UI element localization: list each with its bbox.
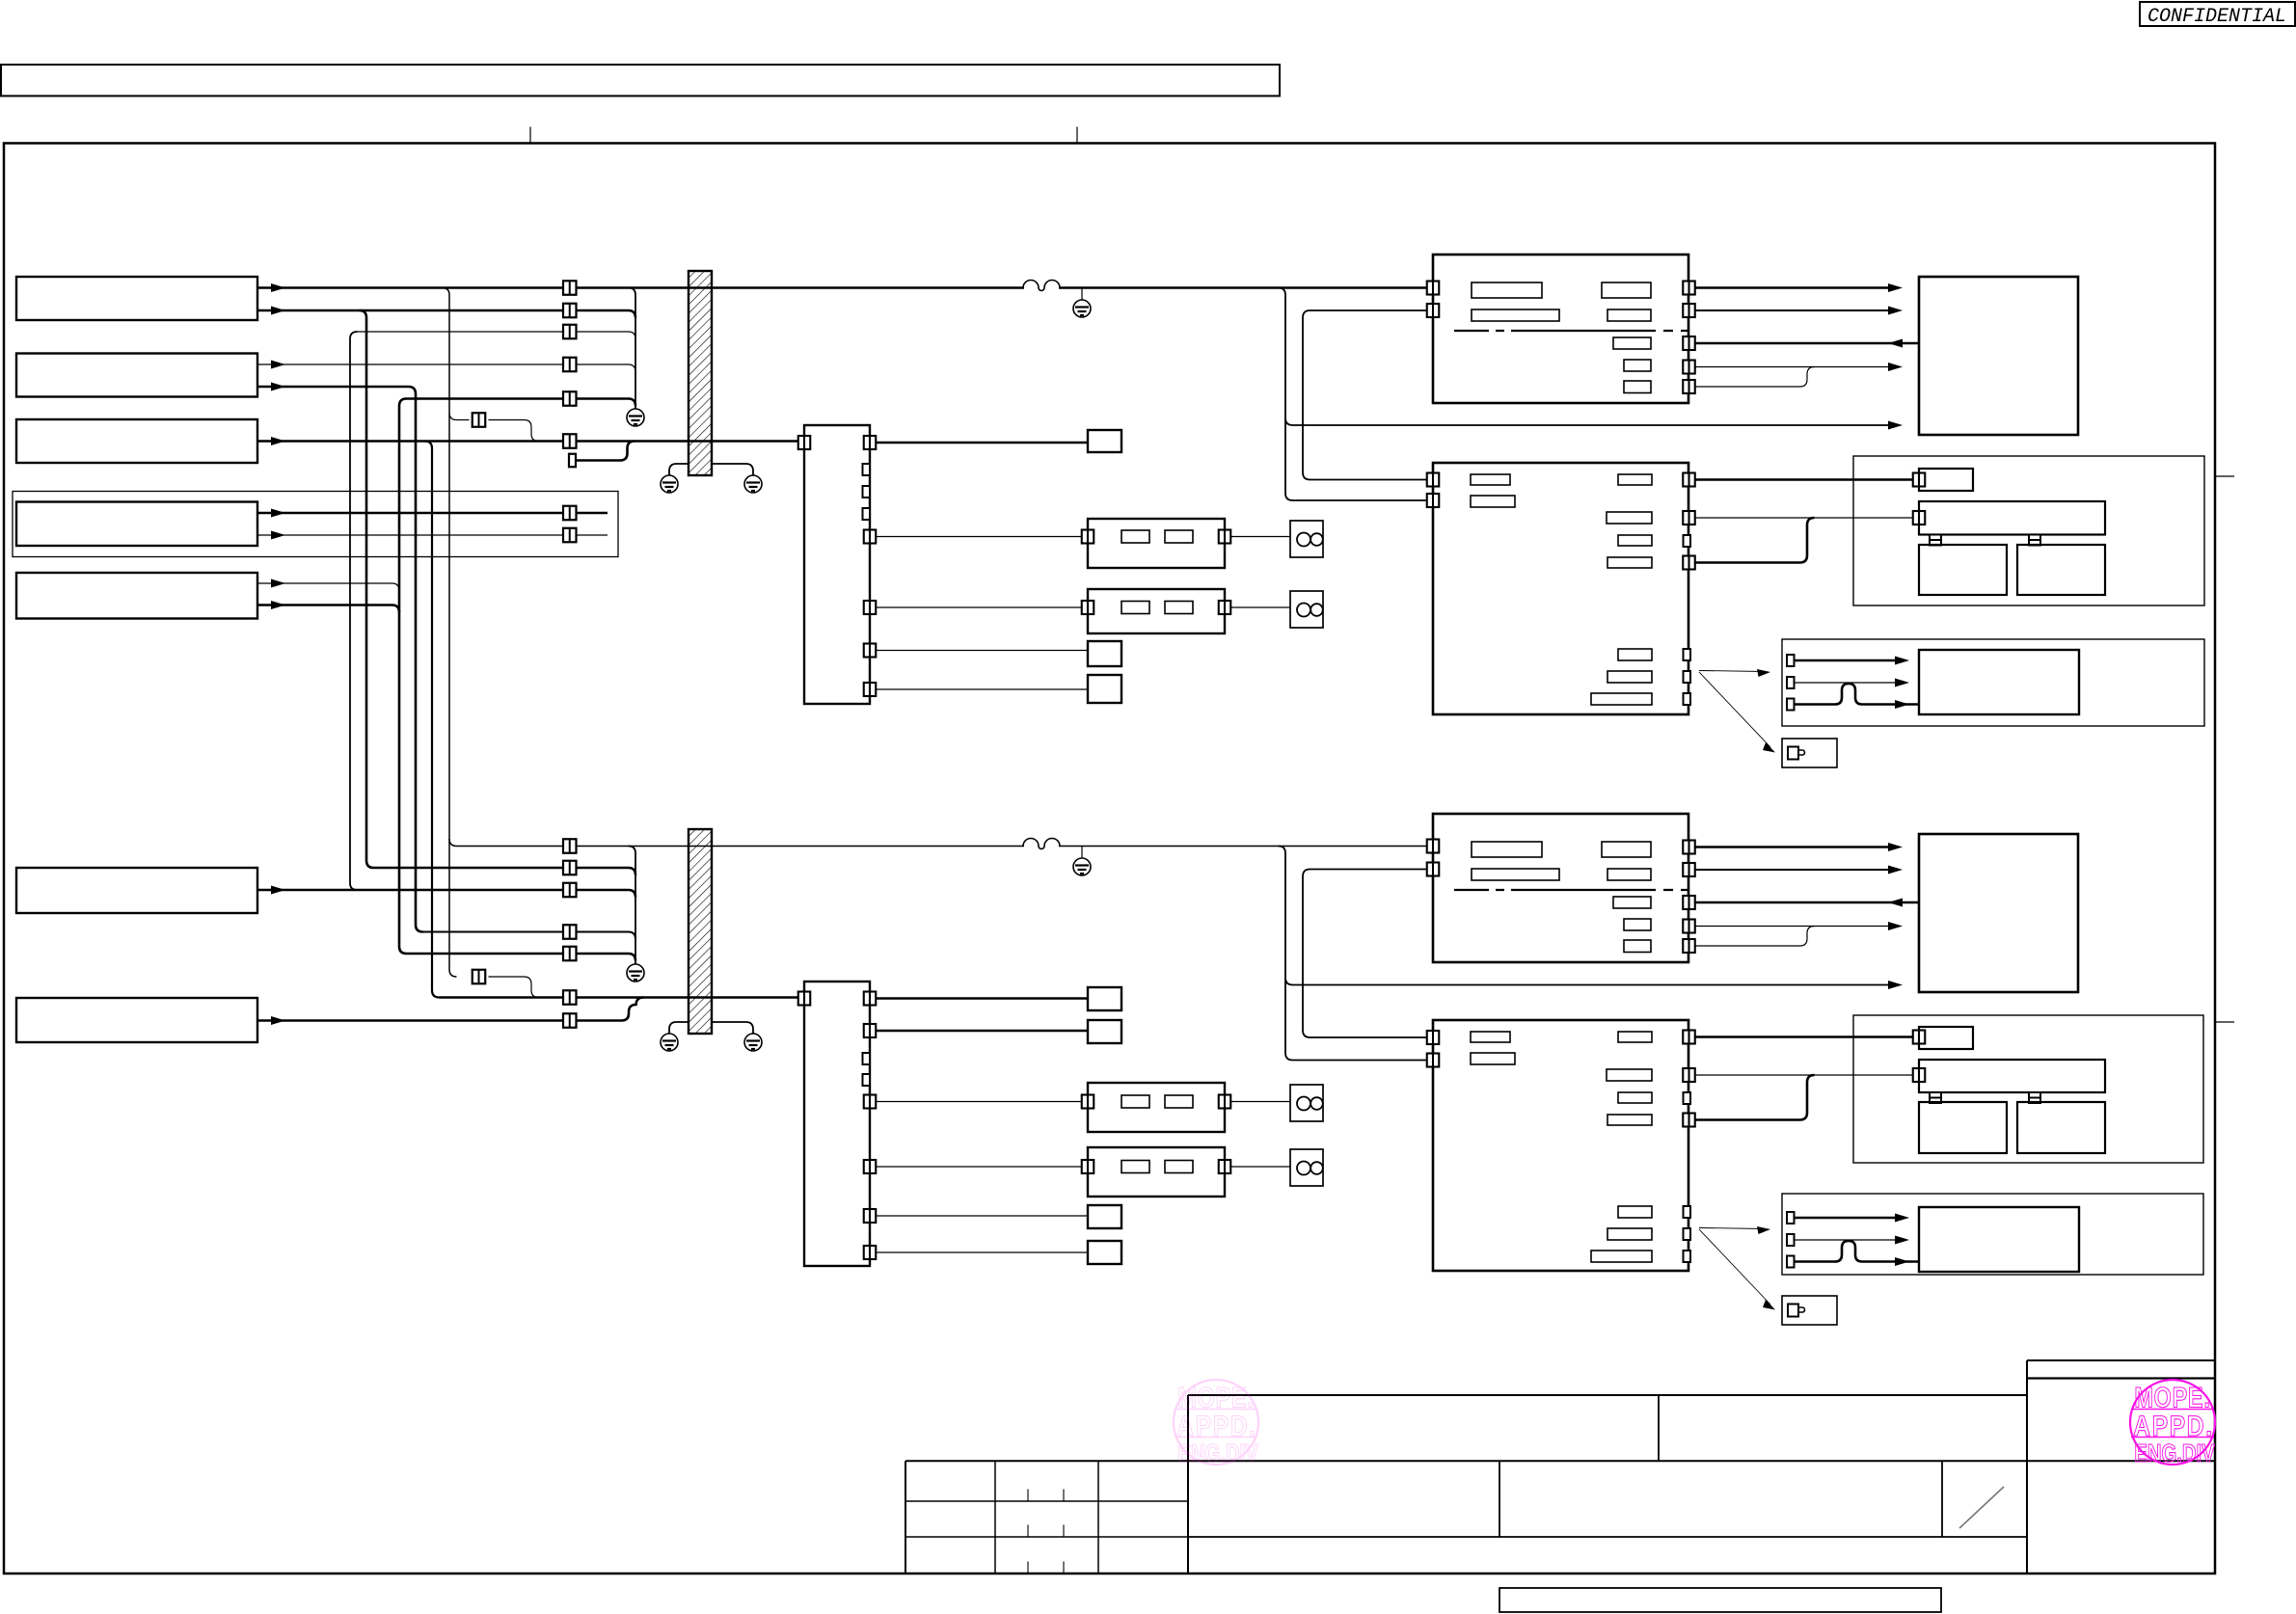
title lower cell divider 1 xyxy=(1499,1461,1500,1537)
wire L3b (box6 out) y=923 xyxy=(257,890,635,898)
panel assembly outer box E xyxy=(1853,456,2204,605)
A inner rect 6 xyxy=(1624,360,1651,371)
svg-text:APPD.: APPD. xyxy=(1176,1410,1256,1442)
terminator box T3 xyxy=(1088,675,1121,703)
input box 3 xyxy=(16,419,257,463)
strip right pin p3 xyxy=(864,601,877,614)
F stub pin 1 xyxy=(1787,655,1795,666)
jack unit box G2 xyxy=(1782,1296,1837,1325)
callout arrow to jack unit xyxy=(1699,672,1770,747)
wire filter1 to ferrite unit xyxy=(1230,536,1290,538)
vertical bus v363 xyxy=(350,332,358,890)
wire L2b y=900 xyxy=(374,868,636,875)
wire L4 (box2 out A thin) y=378 xyxy=(257,364,635,372)
E2b pin xyxy=(1913,1068,1926,1082)
input box 4 xyxy=(16,502,257,547)
main unit box B xyxy=(1433,463,1688,714)
revision table left edge xyxy=(905,1461,906,1574)
wire q4 to filter2b xyxy=(876,1166,1082,1168)
B right stub pins (audio) xyxy=(1684,649,1691,660)
wire A2 row3 (return) xyxy=(1695,901,1919,904)
F stub pin 2 xyxy=(1787,677,1795,688)
F wire 1 xyxy=(1795,659,1896,662)
A right pin 4 xyxy=(1683,361,1695,374)
wire B row2 to panel xyxy=(1695,517,1913,519)
key box E4b xyxy=(2017,1102,2105,1153)
B2 inner rect 4 xyxy=(1607,1069,1652,1081)
B inner rect 7 xyxy=(1618,649,1652,660)
wire L4b y=966.5 xyxy=(423,932,636,940)
ferrite bead humps on L1 xyxy=(1023,281,1060,291)
B right stub pin xyxy=(1684,535,1691,547)
B2 inner rect 5 xyxy=(1618,1092,1652,1103)
B inner rect 3 xyxy=(1618,474,1652,485)
B inner rect 2 xyxy=(1471,496,1515,507)
A inner rect 2 xyxy=(1472,309,1559,321)
svg-text:ENG.DIV: ENG.DIV xyxy=(2134,1439,2215,1467)
strip2 right pin q4 xyxy=(864,1160,877,1173)
vertical bus v431 xyxy=(416,394,423,932)
speaker box F2 xyxy=(1919,650,2079,714)
A2 inner rect 3 xyxy=(1602,842,1651,857)
A right pin 1 xyxy=(1683,282,1695,295)
key box E4 xyxy=(2017,545,2105,595)
wire B row1 to LCD xyxy=(1695,478,1913,481)
main unit box B2 xyxy=(1433,1020,1688,1271)
jack unit box G xyxy=(1782,739,1837,767)
wire L6 (y=413.5 to ground bus) xyxy=(407,399,636,407)
E2-E3 link pin xyxy=(1930,535,1941,546)
ferrite unit (oo) 2b xyxy=(1290,1149,1323,1186)
E2 pin xyxy=(1913,511,1926,525)
wire box5 out B y=627.5 (to v414) xyxy=(257,604,392,606)
wire A row1 to display unit xyxy=(1695,286,1888,289)
A inner rect 3 xyxy=(1602,282,1651,298)
A inner rect 1 xyxy=(1472,282,1542,298)
stamp column top xyxy=(2027,1359,2215,1361)
ground at bus bottom xyxy=(627,409,644,426)
wire from A2 pin2 down to B2 pin1 (v1351b) xyxy=(1303,870,1427,1038)
A left pin 2 xyxy=(1427,304,1440,317)
strip2 left pin xyxy=(798,992,811,1006)
E1b pin xyxy=(1913,1031,1926,1044)
revision date ticks xyxy=(1027,1490,1029,1502)
Fb wire 2 xyxy=(1795,1239,1896,1241)
B2 inner rect 2 xyxy=(1471,1053,1515,1064)
input box 1 xyxy=(16,277,257,320)
wire A2 row4 xyxy=(1695,926,1888,928)
ferrite unit (oo) 1 xyxy=(1290,521,1323,557)
vertical bus v380 xyxy=(366,318,374,869)
wire A row5 merging into row4 xyxy=(1695,367,1815,388)
ferrite bead humps on L1b xyxy=(1023,839,1060,849)
drawing number box below border xyxy=(1499,1588,1941,1612)
title block mid horizontal xyxy=(905,1460,2215,1462)
ground stem on L1b xyxy=(1081,847,1083,859)
wire p2 to filter1 xyxy=(876,536,1082,538)
A2 section divider (dash-dot) xyxy=(1454,889,1688,891)
jack symbol xyxy=(1788,747,1798,760)
wire q6 to T3b xyxy=(876,1251,1088,1253)
ferrite unit (oo) 1b xyxy=(1290,1085,1323,1121)
callout arrow to speaker unit xyxy=(1699,671,1765,672)
input box 7 (lower system) xyxy=(16,998,257,1042)
B right pin 1 xyxy=(1683,473,1695,487)
input box 6 (lower system) xyxy=(16,868,257,913)
svg-text:APPD.: APPD. xyxy=(2133,1410,2213,1442)
A2 inner rect 6 xyxy=(1624,919,1651,930)
terminator box T3b xyxy=(1088,1241,1121,1264)
B2 inner rect 1 xyxy=(1471,1032,1510,1042)
input box 2 xyxy=(16,354,257,397)
wire box5 out A y=605 (to v414) xyxy=(257,582,392,584)
svg-text:ENG.DIV: ENG.DIV xyxy=(1177,1439,1258,1467)
B2 left pin 2 xyxy=(1427,1054,1440,1067)
strip2 stub pins xyxy=(863,1053,871,1064)
box7 out wire y=1058.5 joining main xyxy=(257,998,643,1021)
wire q2 to Txb xyxy=(876,1030,1088,1033)
wall ground link left xyxy=(669,464,689,475)
wire p3 to filter2 xyxy=(876,606,1082,608)
filter box FL2b xyxy=(1088,1147,1225,1197)
CONFIDENTIAL stamp box xyxy=(2140,2,2295,26)
B2 right pin 2 xyxy=(1683,1068,1695,1082)
filter box FL1b xyxy=(1088,1083,1225,1132)
zone tick right border 1 xyxy=(2215,475,2234,477)
panel pcb box E2b xyxy=(1919,1060,2105,1092)
input box 5 xyxy=(16,573,257,619)
B2 inner rect 8 xyxy=(1607,1228,1652,1240)
strip left pin xyxy=(798,436,811,449)
connector strip J (top half) xyxy=(804,425,870,704)
ground left of wall (bottom) xyxy=(661,1034,678,1051)
B2 right stub pin xyxy=(1684,1092,1691,1104)
ground (L1b shield) xyxy=(1073,858,1091,875)
wall ground link right (bottom) xyxy=(712,1022,753,1034)
B left pin 2 xyxy=(1427,494,1440,507)
title block top edge xyxy=(1188,1394,2027,1396)
speaker box F2b xyxy=(1919,1207,2079,1272)
E1 pin xyxy=(1913,473,1926,487)
filter box FL1 xyxy=(1088,519,1225,568)
wire L3 (thin, from v363) y=344 xyxy=(358,332,636,339)
wire q1 to T1b xyxy=(876,997,1088,1000)
wire A row3 (return) xyxy=(1695,342,1919,345)
A2 right pin 3 xyxy=(1683,896,1695,909)
stamp column left edge xyxy=(2026,1360,2028,1574)
terminator box T2b xyxy=(1088,1205,1121,1228)
display unit box D xyxy=(1919,277,2078,435)
wire A2 row1 xyxy=(1695,846,1888,848)
B left pin 1 xyxy=(1427,473,1440,487)
E2b-E3b link pin xyxy=(1930,1092,1941,1103)
A inner rect 5 xyxy=(1613,337,1651,349)
A2 inner rect 1 xyxy=(1472,842,1542,857)
wire p5 to T3 xyxy=(876,688,1088,690)
main wire bottom y=1034.5 xyxy=(440,996,799,999)
wire L5 (box2 out B) y=401 turns down at x=431 xyxy=(257,387,416,394)
wire q3 to filter1b xyxy=(876,1101,1082,1103)
wire filter2b to ferrite unit xyxy=(1230,1166,1290,1168)
A2 right pin 5 xyxy=(1683,939,1695,953)
main wire (box3 out) y=457.5 xyxy=(257,440,798,443)
branch of v1333b to display unit y=1021.5 xyxy=(1285,978,1888,985)
B2 inner rect 9 xyxy=(1591,1251,1652,1262)
wire A row2 xyxy=(1695,309,1888,311)
E2-E4 link pin xyxy=(2029,535,2040,546)
wire A2 row5 merging into row4 xyxy=(1695,927,1815,947)
strip right pin p4 xyxy=(864,644,877,658)
connector column (bottom half) xyxy=(563,839,577,853)
B2 right pin 4 xyxy=(1683,1114,1695,1127)
jumper tap wire bottom with connector xyxy=(489,977,539,998)
title block left edge xyxy=(1187,1395,1189,1574)
panel pcb box E2 xyxy=(1919,501,2105,535)
strip right pin p5 xyxy=(864,683,877,696)
wire L2 (box1 out B) y=322 xyxy=(257,310,635,318)
faint duplicate stamp xyxy=(1174,1380,1258,1467)
wall ground link left (bottom) xyxy=(669,1022,689,1034)
wire B row4 merging into row2 xyxy=(1695,518,1815,563)
speaker unit outer box F (bottom) xyxy=(1782,1194,2203,1275)
ground (L1 shield) xyxy=(1073,300,1091,317)
B inner rect 5 xyxy=(1618,535,1652,546)
scale slash xyxy=(1959,1487,2004,1528)
F stub pin 3 xyxy=(1787,699,1795,711)
ground stem on L1 xyxy=(1081,288,1083,301)
A2 right pin 4 xyxy=(1683,920,1695,933)
jumper connector xyxy=(473,413,486,427)
revision table column 2 xyxy=(994,1461,996,1574)
wire L5b y=989 xyxy=(407,954,636,961)
B2 inner rect 3 xyxy=(1618,1032,1652,1042)
group enclosure around box 4 xyxy=(13,492,618,557)
title strip (empty) top-left xyxy=(1,65,1280,96)
strip2 right pin q3 xyxy=(864,1095,877,1109)
EMI wall (hatched bar, top) xyxy=(689,271,712,475)
branch of L1 down to feeds (v1333) xyxy=(1279,288,1428,501)
title name cell divider xyxy=(1658,1395,1660,1461)
wire q5 to T2b xyxy=(876,1215,1088,1217)
B right pin 2 xyxy=(1683,511,1695,525)
LCD box E1 xyxy=(1919,469,1973,491)
B inner rect 6 xyxy=(1607,557,1652,568)
zone tick top border 2 xyxy=(1076,127,1078,144)
jack symbol (bottom) xyxy=(1788,1305,1798,1317)
A inner rect 7 xyxy=(1624,381,1651,393)
power unit box A2 xyxy=(1433,814,1688,962)
wire filter2 to ferrite unit xyxy=(1230,606,1290,608)
A2 right pin 2 xyxy=(1683,863,1695,876)
jumper tap wire with connector (from v466) xyxy=(449,413,470,420)
A2 left pin 2 xyxy=(1427,863,1440,876)
A2 inner rect 4 xyxy=(1607,869,1651,880)
power unit box A xyxy=(1433,255,1688,403)
panel assembly outer box E (bottom) xyxy=(1853,1015,2203,1163)
wire p4 to T2 xyxy=(876,650,1088,652)
branch of L1b down to feeds (v1333b) xyxy=(1279,847,1428,1061)
strip2 right pin q5 xyxy=(864,1209,877,1223)
speaker unit outer box F xyxy=(1782,639,2204,726)
wire A2 row2 xyxy=(1695,869,1888,871)
callout arrow to jack unit (bottom) xyxy=(1699,1229,1770,1305)
revision table row 2 xyxy=(905,1536,1188,1538)
ground bus vertical x=659 (bottom) xyxy=(629,847,636,965)
vertical bus v448 xyxy=(425,442,440,998)
LCD box E1b xyxy=(1919,1027,1973,1049)
stamp cell top xyxy=(2027,1377,2215,1379)
Fb wire 1 xyxy=(1795,1217,1896,1220)
wall ground link right xyxy=(712,464,753,475)
stub connector below main xyxy=(569,454,576,468)
A2 inner rect 7 xyxy=(1624,940,1651,953)
A2 right pin 1 xyxy=(1683,841,1695,854)
wire L1b y=877.5 xyxy=(457,846,1025,847)
ground right of wall (bottom) xyxy=(744,1034,762,1051)
revision table row 1 xyxy=(905,1500,1188,1502)
B inner rect 4 xyxy=(1607,512,1652,524)
wire from A pin2 down to B pin1 (v1351) xyxy=(1303,310,1427,480)
ground at bottom bus xyxy=(627,964,644,982)
wire filter1b to ferrite unit xyxy=(1230,1101,1290,1103)
strip2 right pin q6 xyxy=(864,1246,877,1259)
A section divider (dash-dot) xyxy=(1454,330,1688,332)
stub wire joining main line xyxy=(576,442,635,461)
Fb stub pin 3 xyxy=(1787,1256,1795,1268)
B right pin 4 xyxy=(1683,556,1695,570)
A2 inner rect 2 xyxy=(1472,869,1559,880)
wire B2 row4 merging into row2 xyxy=(1695,1075,1815,1120)
A left pin 1 xyxy=(1427,282,1440,295)
A right pin 3 xyxy=(1683,336,1695,350)
zone tick top border 1 xyxy=(529,127,531,144)
wire B2 row1 to LCD xyxy=(1695,1036,1913,1038)
F wire 2 xyxy=(1795,682,1896,684)
terminator box T1 xyxy=(1088,430,1121,452)
key box E3b xyxy=(1919,1102,2007,1153)
wire B2 row2 to panel xyxy=(1695,1074,1913,1076)
F wire 3 with hop xyxy=(1795,684,1920,705)
terminator box T1b xyxy=(1088,987,1121,1010)
filter box FL2 xyxy=(1088,589,1225,633)
Fb stub pin 1 xyxy=(1787,1212,1795,1224)
svg-text:CONFIDENTIAL: CONFIDENTIAL xyxy=(2147,6,2286,28)
strip right pin p1 xyxy=(864,436,877,449)
EMI wall (hatched bar, bottom) xyxy=(689,829,712,1034)
B2 inner rect 7 xyxy=(1618,1206,1652,1218)
zone tick right border 2 xyxy=(2215,1021,2234,1023)
A2 inner rect 5 xyxy=(1613,897,1651,908)
revision table column 3 xyxy=(1097,1461,1099,1574)
wire box4 out B y=555 xyxy=(257,534,608,536)
strip2 right pin q1 xyxy=(864,992,877,1006)
A2 left pin 1 xyxy=(1427,840,1440,853)
strip2 right pin q2 xyxy=(864,1024,877,1037)
terminator box T2 xyxy=(1088,641,1121,666)
A right pin 5 xyxy=(1683,380,1695,393)
connector strip J (bottom half) xyxy=(804,982,870,1266)
ground bus vertical x=659 (top) xyxy=(629,288,636,410)
wire p1 to terminator T1 xyxy=(876,442,1088,444)
ground right of wall xyxy=(744,475,762,493)
terminator box Txb xyxy=(1088,1020,1121,1043)
B inner rect 9 xyxy=(1591,693,1652,705)
wire L1 (box1 out A) y=298.5 xyxy=(257,286,1024,289)
wire A row4 xyxy=(1695,366,1888,368)
Fb wire 3 with hop xyxy=(1795,1241,1920,1262)
ground left of wall xyxy=(661,475,678,493)
E2b-E4b link pin xyxy=(2029,1092,2040,1103)
connector column (top half) xyxy=(563,281,577,295)
A inner rect 4 xyxy=(1607,309,1651,321)
branch of v1333 to display unit y=441 xyxy=(1285,418,1888,426)
title lower cell divider 2 xyxy=(1941,1461,1943,1537)
B2 right stub pins (audio) xyxy=(1684,1206,1691,1218)
B inner rect 8 xyxy=(1607,671,1652,683)
Fb stub pin 2 xyxy=(1787,1234,1795,1246)
vertical bus v466 xyxy=(443,288,457,978)
title lower row line xyxy=(1188,1536,2027,1538)
approval stamp (magenta) xyxy=(2130,1380,2215,1465)
B2 inner rect 6 xyxy=(1607,1115,1652,1125)
B2 left pin 1 xyxy=(1427,1031,1440,1044)
vertical bus v414 xyxy=(399,399,407,955)
callout arrow to speaker unit (bottom) xyxy=(1699,1228,1765,1229)
B inner rect 1 xyxy=(1471,474,1510,485)
ferrite unit (oo) 2 xyxy=(1290,591,1323,628)
wire box4 out A y=532 xyxy=(257,512,608,515)
key box E3 xyxy=(1919,545,2007,595)
strip right pin p2 xyxy=(864,530,877,544)
strip stub pins xyxy=(863,464,871,475)
B2 right pin 1 xyxy=(1683,1031,1695,1044)
display unit box D2 xyxy=(1919,834,2078,992)
A right pin 2 xyxy=(1683,304,1695,317)
jumper connector bottom xyxy=(473,970,486,984)
